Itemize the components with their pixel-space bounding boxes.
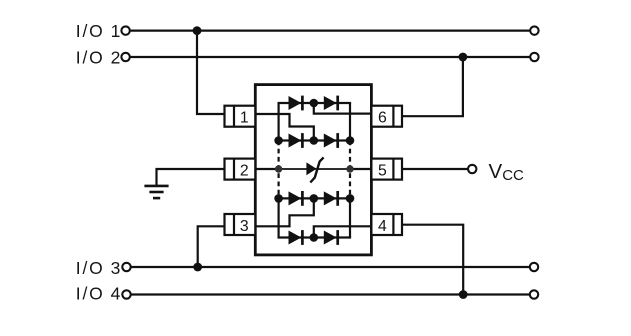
node junction I/O3 <box>193 263 202 272</box>
wire row 5 <box>278 236 352 238</box>
svg-text:3: 3 <box>240 218 249 235</box>
svg-text:2: 2 <box>240 163 249 180</box>
node row2 GND rail <box>274 136 283 145</box>
diode D5 row4 left <box>289 191 303 206</box>
wire I/O2 junction to pin 6 <box>402 57 463 116</box>
svg-text:2: 2 <box>111 48 121 68</box>
wire pin 4 internal from row5 node <box>314 226 372 237</box>
pin 2 <box>225 159 256 180</box>
terminal I/O1 left <box>121 26 129 34</box>
pin 4 <box>371 214 402 235</box>
pin 3 <box>225 214 256 235</box>
wire pin 6 internal from row1 node <box>314 103 372 114</box>
wire pin 2 internal to GND rail <box>255 168 278 170</box>
diode D4 row2 right <box>324 133 338 148</box>
wire row 4 <box>279 197 350 199</box>
svg-text:1: 1 <box>111 21 121 41</box>
GND rail left dashed middle segment <box>278 141 280 199</box>
diode D2 row1 right <box>324 96 338 111</box>
wire Vcc from pin 5 <box>402 168 468 170</box>
wire pin 1 internal to row2 node <box>255 114 313 141</box>
VCC rail right solid bottom segment <box>349 198 351 237</box>
ground symbol <box>144 186 168 198</box>
svg-text:1: 1 <box>240 110 249 127</box>
svg-text:4: 4 <box>378 218 387 235</box>
terminal I/O3 right <box>530 263 538 271</box>
wire I/O 1 horizontal <box>126 30 535 32</box>
node row4 GND rail <box>274 194 283 203</box>
wire I/O 4 horizontal <box>127 293 535 295</box>
ground wire from pin 2 <box>157 169 225 186</box>
svg-text:I/O: I/O <box>76 258 105 278</box>
svg-text:4: 4 <box>111 284 121 304</box>
node junction I/O2 <box>459 53 468 62</box>
terminal I/O4 left <box>122 290 130 298</box>
node junction I/O1 <box>193 26 202 35</box>
terminal I/O2 right <box>530 53 538 61</box>
pin 1 <box>225 106 256 127</box>
wire I/O1 junction to pin 1 <box>197 31 225 114</box>
wire row 2 <box>279 139 350 141</box>
wire pin 3 internal to row4 node <box>255 198 313 226</box>
wire row 1 <box>278 102 352 104</box>
node row4 VCC rail <box>346 194 355 203</box>
GND rail left solid bottom segment <box>278 198 280 237</box>
GND rail left solid top segment <box>278 103 280 141</box>
node row3 VCC rail <box>346 165 353 172</box>
terminal I/O1 right <box>530 26 538 34</box>
terminal I/O4 right <box>530 290 538 298</box>
wire I/O 2 horizontal <box>126 56 535 58</box>
IC body U1 <box>255 85 371 255</box>
diode D1 row1 left <box>289 96 303 111</box>
wire pin 5 internal to VCC rail <box>350 168 371 170</box>
node row1 <box>310 99 319 108</box>
svg-text:I/O: I/O <box>76 48 105 68</box>
diode D3 row2 left <box>289 133 303 148</box>
wire I/O3 junction to pin 3 <box>198 226 225 267</box>
svg-text:6: 6 <box>378 110 387 127</box>
pin 5 <box>371 159 402 180</box>
node junction I/O4 <box>459 290 468 299</box>
wire row 3 zener row <box>279 168 350 170</box>
diode D6 row4 right <box>324 191 338 206</box>
zener Z1 <box>306 157 323 182</box>
terminal Vcc <box>468 165 476 173</box>
pin 6 <box>371 106 402 127</box>
diode D7 row5 left <box>289 230 303 245</box>
node row2 <box>310 136 319 145</box>
VCC rail right dashed middle segment <box>349 141 351 199</box>
wire I/O 3 horizontal <box>127 266 535 268</box>
wire I/O4 junction to pin 4 <box>402 225 463 295</box>
node row5 <box>310 233 319 242</box>
svg-text:I/O: I/O <box>76 284 105 304</box>
svg-text:5: 5 <box>378 163 387 180</box>
node row4 <box>310 194 319 203</box>
node row3 GND rail <box>275 165 282 172</box>
node row2 VCC rail <box>346 136 355 145</box>
diode D8 row5 right <box>324 230 338 245</box>
terminal I/O3 left <box>122 263 130 271</box>
VCC rail right solid top segment <box>349 103 351 141</box>
svg-text:I/O: I/O <box>76 21 105 41</box>
terminal I/O2 left <box>121 53 129 61</box>
svg-text:3: 3 <box>111 258 121 278</box>
